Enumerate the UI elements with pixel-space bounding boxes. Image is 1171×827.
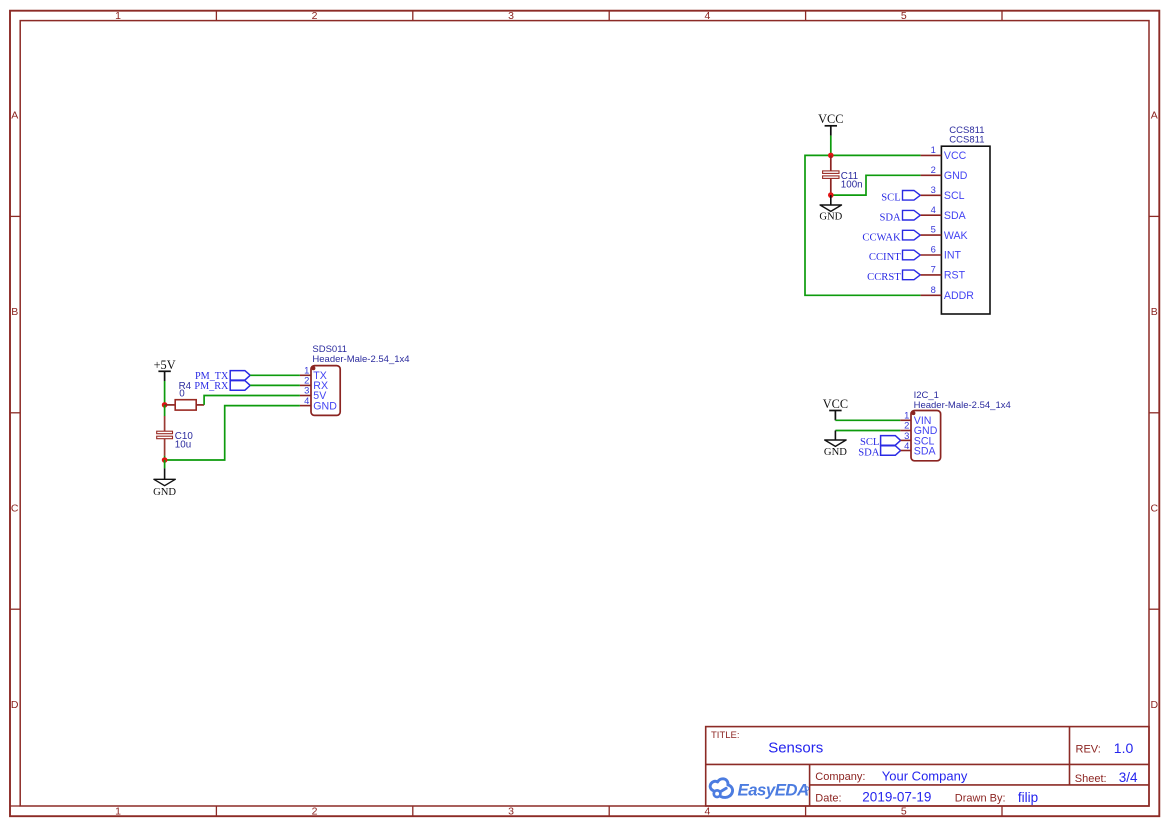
svg-text:Sheet:: Sheet: [1075, 773, 1107, 785]
svg-text:D: D [11, 699, 19, 711]
svg-text:5: 5 [901, 805, 907, 817]
pin 3 SCL [921, 184, 965, 202]
svg-text:1: 1 [931, 144, 936, 155]
svg-text:SCL: SCL [881, 193, 900, 204]
svg-text:+5V: +5V [154, 358, 176, 372]
svg-text:A: A [11, 110, 18, 122]
wire VCC to VIN pin 1 [835, 419, 900, 421]
svg-text:VCC: VCC [818, 112, 843, 126]
svg-text:1: 1 [115, 10, 121, 22]
net flag SCL (CCS811) [881, 191, 920, 204]
svg-text:GND: GND [819, 212, 842, 223]
wire GND pin 4 to C10 [165, 406, 300, 460]
pin 4 GND [300, 395, 337, 413]
junction GND net [162, 457, 168, 463]
pin 5 WAK [921, 224, 968, 242]
svg-text:SDA: SDA [914, 445, 937, 457]
svg-text:2019-07-19: 2019-07-19 [862, 790, 931, 805]
svg-text:2: 2 [312, 10, 318, 22]
net flag SDA (CCS811) [879, 210, 920, 223]
svg-text:3: 3 [508, 10, 514, 22]
capacitor C11 [823, 155, 863, 195]
net flag PM_RX [194, 381, 250, 393]
svg-text:WAK: WAK [944, 230, 968, 242]
svg-text:Sensors: Sensors [768, 740, 823, 757]
svg-text:Drawn By:: Drawn By: [955, 792, 1006, 804]
svg-text:D: D [1151, 699, 1159, 711]
svg-text:B: B [11, 306, 18, 318]
net flag CCRST [867, 270, 920, 283]
IC CCS811 [921, 125, 990, 314]
svg-text:EasyEDA: EasyEDA [738, 781, 809, 800]
pin 1 VCC [921, 144, 967, 162]
wire C11 to GND pin 2 [831, 175, 921, 195]
svg-text:Header-Male-2.54_1x4: Header-Male-2.54_1x4 [312, 354, 409, 365]
junction VCC net [828, 153, 834, 159]
svg-text:Company:: Company: [815, 771, 865, 783]
wire +5V vertical [164, 381, 166, 405]
svg-text:4: 4 [931, 204, 936, 215]
svg-text:Your Company: Your Company [882, 769, 968, 784]
wire PM_TX to pin 1 [250, 374, 300, 376]
pin 1 VIN [900, 410, 931, 428]
svg-text:CCRST: CCRST [867, 272, 901, 283]
capacitor C10 [157, 405, 194, 460]
svg-text:REV:: REV: [1076, 744, 1101, 756]
svg-text:INT: INT [944, 250, 962, 262]
svg-text:SCL: SCL [944, 190, 965, 202]
power flag VCC (I2C) [823, 397, 848, 420]
svg-text:PM_RX: PM_RX [194, 381, 229, 392]
svg-text:GND: GND [824, 447, 847, 458]
svg-text:1.0: 1.0 [1114, 740, 1134, 756]
net flag CCINT [869, 250, 920, 263]
svg-text:4: 4 [704, 10, 710, 22]
svg-text:3/4: 3/4 [1119, 770, 1138, 785]
svg-text:RST: RST [944, 270, 966, 282]
svg-text:3: 3 [931, 184, 936, 195]
pin 8 ADDR [921, 284, 975, 302]
svg-text:10u: 10u [175, 440, 191, 451]
power flag +5V [154, 358, 176, 381]
svg-text:B: B [1151, 306, 1158, 318]
svg-text:2: 2 [312, 805, 318, 817]
pin 7 RST [921, 264, 966, 282]
svg-text:1: 1 [115, 805, 121, 817]
pin 3 SCL [901, 430, 935, 448]
svg-text:CCS811: CCS811 [949, 135, 984, 146]
svg-text:5: 5 [931, 224, 936, 235]
svg-text:7: 7 [931, 264, 936, 275]
net flag PM_TX [195, 371, 250, 382]
wire VCC vertical [830, 136, 832, 156]
wire PM_RX to pin 2 [250, 384, 300, 386]
wire R4 to 5V pin 3 [204, 396, 300, 405]
pin 4 SDA [921, 204, 967, 222]
wire VCC to pin 1 [831, 154, 921, 156]
svg-text:4: 4 [904, 440, 909, 451]
pin 6 INT [921, 244, 962, 262]
resistor R4 [165, 381, 205, 410]
svg-text:VCC: VCC [944, 150, 967, 162]
svg-text:SDA: SDA [944, 210, 967, 222]
ground GND (CCS811) [819, 195, 842, 223]
junction +5V net [162, 402, 168, 408]
svg-text:TITLE:: TITLE: [711, 730, 740, 741]
pin 2 RX [300, 375, 328, 393]
svg-text:filip: filip [1018, 790, 1038, 805]
svg-text:2: 2 [931, 164, 936, 175]
net flag SDA (I2C) [858, 446, 900, 459]
svg-text:C: C [11, 503, 19, 515]
svg-text:0: 0 [179, 388, 185, 399]
svg-text:GND: GND [313, 400, 337, 412]
power flag VCC (CCS811) [818, 112, 843, 135]
pin 4 SDA [901, 440, 937, 458]
svg-text:ADDR: ADDR [944, 290, 974, 302]
svg-text:GND: GND [153, 487, 176, 498]
svg-text:4: 4 [704, 805, 710, 817]
junction GND net [828, 192, 834, 198]
svg-text:100n: 100n [841, 180, 863, 191]
net flag SCL (I2C) [860, 436, 901, 449]
ground GND (I2C) [824, 431, 847, 459]
svg-text:VCC: VCC [823, 397, 848, 411]
net flag CCWAK [862, 230, 920, 243]
svg-text:SDA: SDA [879, 212, 901, 223]
EasyEDA logo [710, 779, 809, 800]
svg-text:GND: GND [944, 170, 968, 182]
pin 3 5V [300, 385, 327, 403]
svg-text:4: 4 [304, 395, 309, 406]
svg-text:8: 8 [931, 284, 936, 295]
header SDS011 [300, 344, 410, 415]
svg-text:3: 3 [508, 805, 514, 817]
header I2C_1 [900, 390, 1010, 461]
svg-text:6: 6 [931, 244, 936, 255]
wire GND to pin 2 [835, 430, 900, 432]
pin 2 GND [900, 420, 937, 438]
svg-text:Header-Male-2.54_1x4: Header-Male-2.54_1x4 [914, 400, 1011, 411]
svg-text:A: A [1151, 110, 1158, 122]
svg-text:SDA: SDA [858, 447, 880, 458]
svg-text:CCWAK: CCWAK [862, 232, 901, 243]
wire VCC net to ADDR pin 8 [805, 155, 921, 295]
svg-text:C: C [1151, 503, 1159, 515]
ground GND (SDS011) [153, 460, 176, 498]
svg-text:5: 5 [901, 10, 907, 22]
pin 1 TX [300, 365, 327, 383]
pin 2 GND [921, 164, 968, 182]
svg-text:CCINT: CCINT [869, 252, 901, 263]
svg-text:Date:: Date: [815, 792, 841, 804]
title block [706, 727, 1149, 806]
